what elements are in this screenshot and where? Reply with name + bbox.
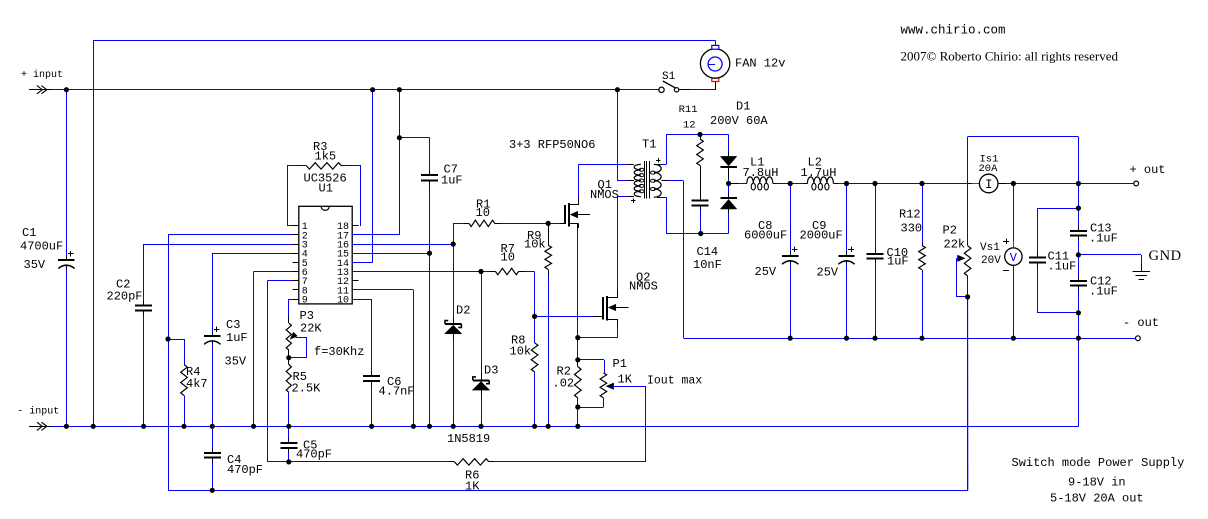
svg-text:1k5: 1k5 (315, 150, 337, 164)
svg-text:Switch mode Power Supply: Switch mode Power Supply (1012, 456, 1185, 470)
svg-text:25V: 25V (817, 266, 839, 280)
svg-text:22k: 22k (944, 238, 966, 252)
svg-text:20V: 20V (981, 255, 1001, 267)
svg-text:T1: T1 (642, 138, 656, 152)
svg-text:9-18V in: 9-18V in (1068, 476, 1126, 490)
svg-text:1uF: 1uF (441, 174, 463, 188)
svg-text:V: V (1010, 251, 1018, 265)
svg-text:4700uF: 4700uF (20, 240, 63, 254)
svg-text:.1uF: .1uF (1089, 285, 1118, 299)
svg-text:D2: D2 (456, 304, 470, 318)
svg-text:7.8uH: 7.8uH (743, 166, 779, 180)
svg-text:NMOS: NMOS (629, 280, 658, 294)
svg-text:9: 9 (302, 295, 308, 306)
svg-text:FAN 12v: FAN 12v (735, 57, 785, 71)
svg-text:+ out: + out (1130, 163, 1166, 177)
svg-text:4k7: 4k7 (186, 377, 208, 391)
svg-text:1K: 1K (618, 373, 633, 387)
svg-text:220pF: 220pF (107, 290, 143, 304)
svg-text:C3: C3 (226, 318, 240, 332)
svg-text:R11: R11 (679, 104, 698, 116)
svg-text:1uF: 1uF (887, 255, 909, 269)
svg-text:S1: S1 (662, 71, 676, 83)
svg-text:GND: GND (1149, 248, 1182, 264)
svg-text:www.chirio.com: www.chirio.com (901, 24, 1006, 38)
svg-text:10: 10 (501, 251, 515, 265)
svg-text:P1: P1 (613, 357, 627, 371)
svg-text:R12: R12 (899, 208, 921, 222)
svg-text:- out: - out (1123, 316, 1159, 330)
svg-text:10: 10 (476, 206, 490, 220)
svg-text:4.7nF: 4.7nF (379, 385, 415, 399)
svg-text:12: 12 (683, 120, 696, 132)
svg-text:U1: U1 (319, 182, 333, 196)
svg-text:P2: P2 (943, 224, 957, 238)
svg-text:200V 60A: 200V 60A (710, 114, 768, 128)
svg-text:10k: 10k (524, 238, 546, 252)
svg-text:.1uF: .1uF (1089, 232, 1118, 246)
svg-text:470pF: 470pF (227, 463, 263, 477)
svg-text:3+3 RFP50NO6: 3+3 RFP50NO6 (509, 138, 595, 152)
svg-text:1N5819: 1N5819 (447, 432, 490, 446)
svg-text:D3: D3 (484, 364, 498, 378)
svg-text:f=30Khz: f=30Khz (314, 345, 364, 359)
svg-text:.1uF: .1uF (1048, 260, 1077, 274)
svg-text:C1: C1 (22, 226, 36, 240)
svg-text:35V: 35V (225, 355, 247, 369)
svg-text:1.7uH: 1.7uH (801, 166, 837, 180)
svg-text:35V: 35V (24, 258, 46, 272)
svg-text:2007© Roberto Chirio: all righ: 2007© Roberto Chirio: all rights reserve… (901, 49, 1119, 64)
svg-text:Vs1: Vs1 (980, 242, 1000, 254)
svg-text:.02: .02 (553, 377, 575, 391)
svg-text:NMOS: NMOS (590, 188, 619, 202)
svg-text:1uF: 1uF (226, 331, 248, 345)
svg-text:470pF: 470pF (296, 448, 332, 462)
svg-text:10: 10 (337, 295, 349, 306)
svg-text:2.5K: 2.5K (292, 382, 322, 396)
svg-text:6000uF: 6000uF (744, 229, 787, 243)
svg-text:10k: 10k (510, 345, 532, 359)
svg-text:20A: 20A (979, 163, 999, 175)
svg-text:+ input: + input (21, 69, 63, 81)
svg-text:D1: D1 (736, 100, 750, 114)
svg-text:C14: C14 (697, 245, 719, 259)
svg-text:330: 330 (901, 222, 923, 236)
svg-text:Iout max: Iout max (647, 375, 702, 388)
svg-text:22K: 22K (300, 322, 322, 336)
svg-text:2000uF: 2000uF (800, 229, 843, 243)
svg-text:5-18V 20A out: 5-18V 20A out (1050, 492, 1144, 506)
svg-text:- input: - input (17, 406, 59, 418)
svg-text:I: I (985, 178, 993, 192)
svg-text:1K: 1K (465, 480, 480, 494)
svg-text:25V: 25V (755, 265, 777, 279)
svg-text:10nF: 10nF (693, 258, 722, 272)
